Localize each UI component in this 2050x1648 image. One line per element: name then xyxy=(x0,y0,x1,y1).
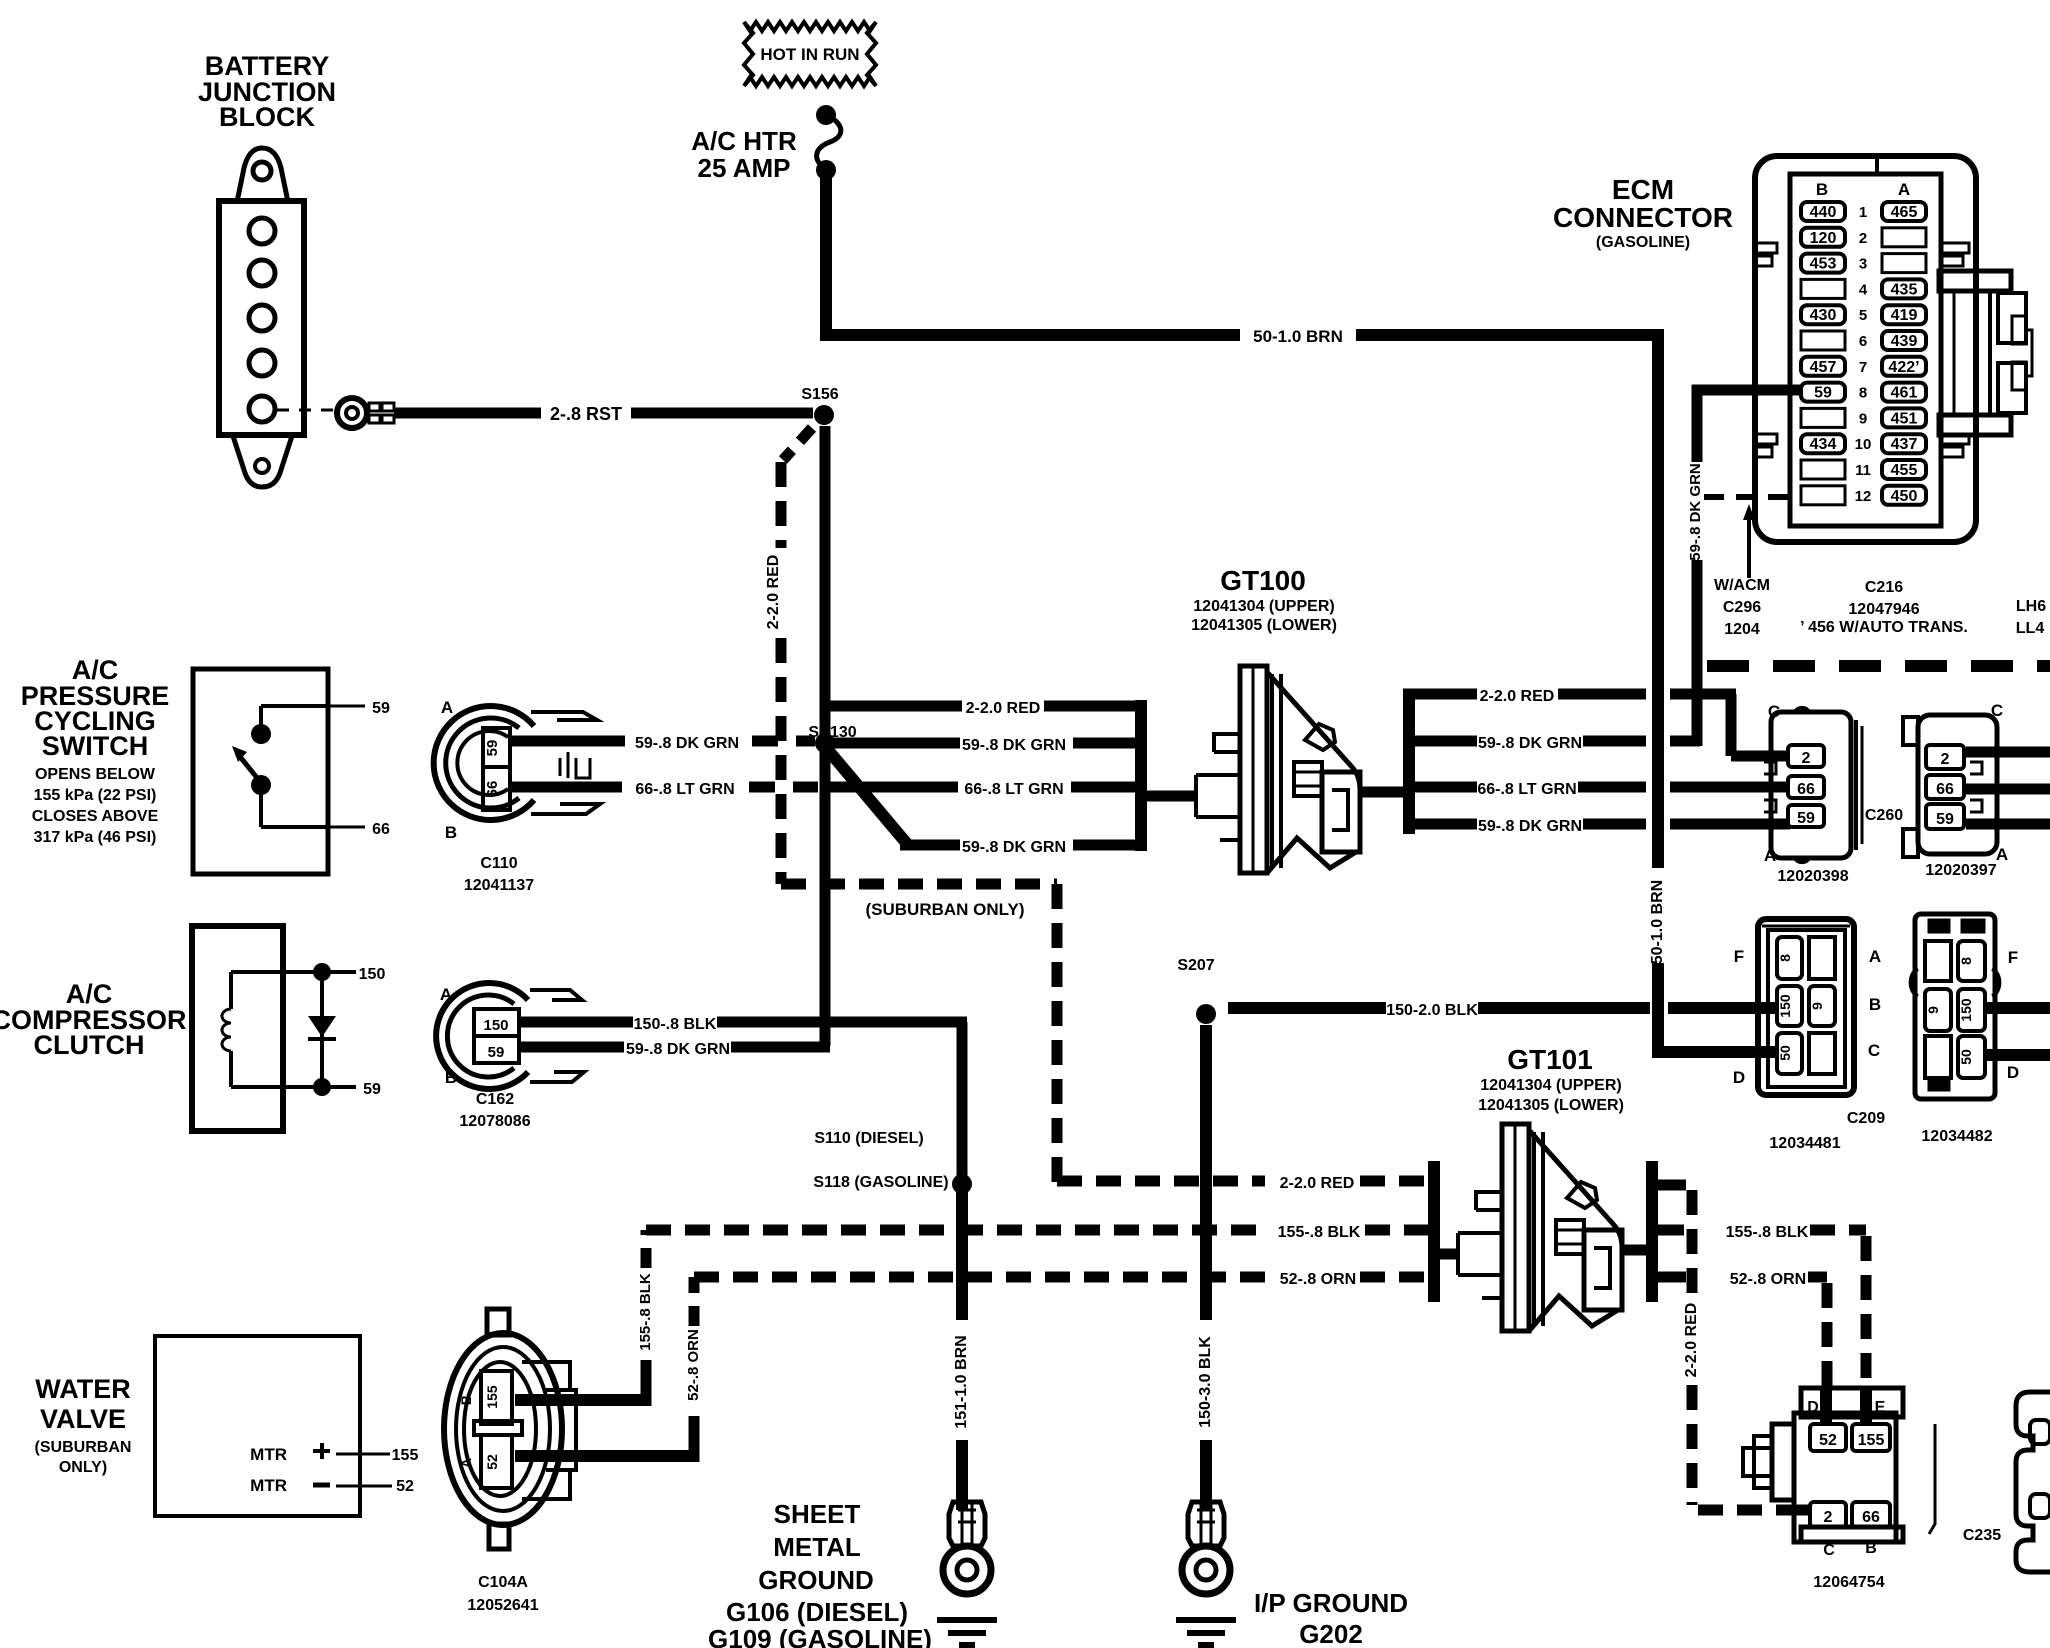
svg-text:D: D xyxy=(1733,1068,1745,1087)
svg-text:A: A xyxy=(1764,846,1776,865)
svg-text:GT100: GT100 xyxy=(1220,565,1306,596)
connector C235 xyxy=(1743,1388,1903,1559)
svg-text:2-.8 RST: 2-.8 RST xyxy=(550,404,622,424)
svg-text:59: 59 xyxy=(1797,810,1815,827)
wire 155-.8 BLK C104A riser xyxy=(515,1230,654,1406)
ground G106/G109 ring terminal and ground symbol xyxy=(937,1502,997,1645)
svg-text:(GASOLINE): (GASOLINE) xyxy=(1596,234,1690,251)
svg-text:59: 59 xyxy=(363,1081,381,1098)
svg-text:434: 434 xyxy=(1810,436,1837,453)
ring terminal (battery feed) xyxy=(337,398,394,428)
svg-text:66: 66 xyxy=(372,821,390,838)
svg-text:453: 453 xyxy=(1810,256,1837,273)
svg-text:25 AMP: 25 AMP xyxy=(698,153,791,183)
svg-text:I/P GROUND: I/P GROUND xyxy=(1254,1588,1408,1618)
svg-text:C110: C110 xyxy=(480,855,517,872)
svg-text:ECM: ECM xyxy=(1612,174,1674,205)
connector C260 mate 12020397 xyxy=(1903,701,2008,864)
svg-text:120: 120 xyxy=(1810,230,1837,247)
svg-text:G202: G202 xyxy=(1299,1619,1363,1648)
svg-text:12052641: 12052641 xyxy=(467,1597,538,1614)
wire 59-.8 DK GRN S130 to GT100 (lower, diagonal) xyxy=(828,750,1146,856)
svg-text:12: 12 xyxy=(1855,488,1872,505)
note W/ACM C296 1204 xyxy=(1714,577,1770,638)
svg-text:OPENS BELOW: OPENS BELOW xyxy=(35,766,156,783)
label C235 12064754 xyxy=(1813,1527,2001,1591)
svg-text:C260: C260 xyxy=(1865,807,1903,824)
svg-text:155: 155 xyxy=(392,1447,419,1464)
svg-text:WATER: WATER xyxy=(35,1374,131,1404)
svg-text:12020398: 12020398 xyxy=(1777,868,1848,885)
wire 2-2.0 RED (S156 branch to GT100) xyxy=(820,700,1146,1046)
svg-text:150-3.0 BLK: 150-3.0 BLK xyxy=(1197,1336,1214,1428)
svg-text:52: 52 xyxy=(484,1454,500,1470)
wire 59 vertical S156 to C162 junction xyxy=(820,426,831,1046)
svg-text:’ 456 W/AUTO TRANS.: ’ 456 W/AUTO TRANS. xyxy=(1800,619,1968,636)
svg-text:2: 2 xyxy=(1824,1509,1833,1526)
GT101 label xyxy=(1478,1044,1624,1114)
svg-text:C209: C209 xyxy=(1847,1110,1885,1127)
grommet GT101 xyxy=(1458,1124,1622,1331)
wire GT100 to right bus xyxy=(1358,787,1410,798)
svg-text:150: 150 xyxy=(1958,998,1974,1022)
svg-text:455: 455 xyxy=(1891,462,1918,479)
splice S110/S118 labels xyxy=(813,1130,948,1191)
svg-text:59-.8 DK GRN: 59-.8 DK GRN xyxy=(1687,463,1704,561)
label C260 12020398 xyxy=(1777,807,1903,885)
dashed wire 52-.8 ORN GT101 to C235 pin 52 xyxy=(1646,1271,1827,1424)
svg-text:4: 4 xyxy=(1859,281,1868,298)
svg-text:10: 10 xyxy=(1855,436,1872,453)
svg-text:12041305 (LOWER): 12041305 (LOWER) xyxy=(1191,617,1337,634)
wire 59-.8 DK GRN to ECM pin B8 xyxy=(1687,385,1801,746)
svg-text:2-2.0 RED: 2-2.0 RED xyxy=(966,700,1041,717)
A/C pressure cycling switch xyxy=(193,669,328,874)
connector C209 mate 12034482 xyxy=(1911,914,2019,1099)
svg-text:S118 (GASOLINE): S118 (GASOLINE) xyxy=(813,1174,948,1191)
svg-text:435: 435 xyxy=(1891,281,1918,298)
diode (clutch suppression) xyxy=(308,972,336,1087)
svg-text:419: 419 xyxy=(1891,307,1918,324)
node 66 stub (pressure switch) xyxy=(328,821,390,838)
svg-text:C216: C216 xyxy=(1865,579,1903,596)
svg-text:F: F xyxy=(1734,947,1744,966)
wire 59-.8 DK GRN S130 to GT100 (upper) xyxy=(833,737,1146,754)
svg-text:150-2.0 BLK: 150-2.0 BLK xyxy=(1386,1002,1478,1019)
wire 66-.8 LT GRN GT100 to C260 pin 66 xyxy=(1403,781,1790,798)
svg-text:66: 66 xyxy=(1936,781,1954,798)
wire 150-.8 BLK C162 to S110/S118 riser xyxy=(521,1016,967,1186)
wire 151-1.0 BRN to sheet metal ground xyxy=(953,1184,970,1510)
svg-text:155: 155 xyxy=(1858,1432,1885,1449)
A/C compressor clutch label xyxy=(0,979,187,1060)
svg-text:B: B xyxy=(1869,995,1881,1014)
node 59 stub (clutch) xyxy=(313,1078,381,1098)
GT101 right bus xyxy=(1646,1161,1658,1302)
svg-text:(SUBURBAN ONLY): (SUBURBAN ONLY) xyxy=(866,900,1025,919)
svg-text:66-.8 LT GRN: 66-.8 LT GRN xyxy=(1477,781,1576,798)
svg-text:52-.8 ORN: 52-.8 ORN xyxy=(685,1329,702,1401)
svg-text:GROUND: GROUND xyxy=(758,1565,874,1595)
svg-text:150: 150 xyxy=(359,966,386,983)
svg-text:W/ACM: W/ACM xyxy=(1714,577,1770,594)
svg-text:F: F xyxy=(2008,948,2018,967)
wire bus to GT101 grommet xyxy=(1434,1249,1458,1260)
splice S118 dot xyxy=(952,1174,972,1194)
wire 52-.8 ORN C104A riser xyxy=(515,1277,702,1462)
wire 59-.8 DK GRN GT100 to ECM branch xyxy=(1403,735,1700,752)
label C162 12078086 xyxy=(459,1091,530,1130)
svg-text:317 kPa (46 PSI): 317 kPa (46 PSI) xyxy=(34,829,157,846)
svg-text:457: 457 xyxy=(1810,359,1837,376)
svg-text:A: A xyxy=(441,698,453,717)
svg-text:BLOCK: BLOCK xyxy=(219,102,315,132)
svg-text:59-.8 DK GRN: 59-.8 DK GRN xyxy=(626,1041,730,1058)
A/C compressor clutch xyxy=(192,926,318,1131)
svg-text:12041137: 12041137 xyxy=(464,877,534,894)
wires C260 mate to edge xyxy=(1966,752,2050,824)
ECM pin grid xyxy=(1801,202,1926,505)
dashed wire 2-2.0 RED GT101 to C235 pin 2 xyxy=(1646,1185,1812,1510)
svg-text:150: 150 xyxy=(483,1017,508,1034)
svg-text:155 kPa (22 PSI): 155 kPa (22 PSI) xyxy=(34,787,157,804)
svg-text:G106 (DIESEL): G106 (DIESEL) xyxy=(726,1597,908,1627)
dashed link battery block to ring terminal xyxy=(277,409,334,412)
I/P ground label xyxy=(1254,1588,1408,1648)
svg-text:451: 451 xyxy=(1891,410,1918,427)
svg-text:A: A xyxy=(458,1458,474,1468)
svg-text:66: 66 xyxy=(1862,1509,1880,1526)
svg-text:2-2.0 RED: 2-2.0 RED xyxy=(1280,1175,1355,1192)
svg-text:G109 (GASOLINE): G109 (GASOLINE) xyxy=(708,1624,932,1648)
svg-text:12041304 (UPPER): 12041304 (UPPER) xyxy=(1480,1077,1621,1094)
wire 59-.8 DK GRN C110 to S130 xyxy=(512,735,815,752)
svg-text:2: 2 xyxy=(1859,230,1867,247)
svg-text:59-.8 DK GRN: 59-.8 DK GRN xyxy=(962,737,1066,754)
svg-text:66-.8 LT GRN: 66-.8 LT GRN xyxy=(964,781,1063,798)
svg-text:CLUTCH: CLUTCH xyxy=(34,1030,145,1060)
svg-text:MTR: MTR xyxy=(250,1445,287,1464)
svg-text:155-.8 BLK: 155-.8 BLK xyxy=(1278,1224,1361,1241)
svg-text:8: 8 xyxy=(1777,954,1793,962)
GT100 left bus xyxy=(1135,700,1147,851)
svg-text:S110 (DIESEL): S110 (DIESEL) xyxy=(814,1130,923,1147)
svg-text:12047946: 12047946 xyxy=(1848,601,1919,618)
svg-text:12034482: 12034482 xyxy=(1921,1128,1992,1145)
svg-text:HOT IN RUN: HOT IN RUN xyxy=(760,45,859,64)
dashed wire 52-.8 ORN to GT101 xyxy=(694,1271,1430,1288)
svg-text:C296: C296 xyxy=(1723,599,1761,616)
svg-text:VALVE: VALVE xyxy=(40,1404,126,1434)
svg-text:8: 8 xyxy=(1859,385,1867,402)
svg-text:155: 155 xyxy=(484,1385,500,1409)
svg-text:SWITCH: SWITCH xyxy=(42,731,148,761)
GT100 label xyxy=(1191,565,1337,634)
node 59 stub (pressure switch) xyxy=(328,700,390,717)
svg-text:150: 150 xyxy=(1777,994,1793,1018)
svg-text:B: B xyxy=(1865,1540,1877,1557)
svg-text:8: 8 xyxy=(1958,957,1974,965)
svg-text:A: A xyxy=(1898,180,1910,199)
svg-text:50: 50 xyxy=(1958,1049,1974,1065)
svg-text:2-2.0 RED: 2-2.0 RED xyxy=(1683,1303,1700,1378)
svg-text:9: 9 xyxy=(1859,410,1867,427)
svg-text:155-.8 BLK: 155-.8 BLK xyxy=(637,1273,654,1351)
wire 66-.8 LT GRN C110 to GT100 xyxy=(512,781,1146,798)
GT101 left bus xyxy=(1428,1161,1440,1302)
dashed wire 2-2.0 RED to GT101 xyxy=(1057,1175,1430,1192)
ECM connector label xyxy=(1553,174,1733,251)
svg-text:C104A: C104A xyxy=(478,1574,528,1591)
GT100 right bus xyxy=(1403,689,1415,834)
svg-text:CLOSES ABOVE: CLOSES ABOVE xyxy=(32,808,159,825)
svg-text:11: 11 xyxy=(1855,462,1871,479)
wire GT101 to right bus xyxy=(1620,1245,1652,1256)
svg-text:1204: 1204 xyxy=(1724,621,1760,638)
svg-text:12034481: 12034481 xyxy=(1769,1135,1840,1152)
svg-text:66: 66 xyxy=(1797,781,1815,798)
svg-text:A: A xyxy=(1869,947,1881,966)
connector C162 xyxy=(436,983,584,1089)
HOT IN RUN balloon xyxy=(744,22,876,86)
svg-text:12020397: 12020397 xyxy=(1925,862,1996,879)
arrow to W/ACM note xyxy=(1743,504,1755,578)
connector C104A xyxy=(444,1309,576,1549)
svg-text:12041305 (LOWER): 12041305 (LOWER) xyxy=(1478,1097,1624,1114)
svg-text:52-.8 ORN: 52-.8 ORN xyxy=(1730,1271,1806,1288)
svg-text:59: 59 xyxy=(1936,811,1954,828)
grommet GT100 xyxy=(1196,666,1360,873)
wire 2-.8 RST xyxy=(394,404,813,424)
svg-text:2: 2 xyxy=(1802,750,1811,767)
svg-text:S156: S156 xyxy=(801,386,838,403)
svg-text:9: 9 xyxy=(1925,1006,1941,1014)
svg-text:S207: S207 xyxy=(1177,957,1214,974)
svg-text:5: 5 xyxy=(1859,307,1867,324)
svg-text:422’: 422’ xyxy=(1888,359,1919,376)
ground G202 ring terminal and ground symbol xyxy=(1176,1502,1236,1645)
svg-text:3: 3 xyxy=(1859,256,1867,273)
svg-text:12078086: 12078086 xyxy=(459,1113,530,1130)
svg-text:461: 461 xyxy=(1891,385,1918,402)
svg-text:66: 66 xyxy=(484,781,501,798)
connector C110 xyxy=(434,698,600,842)
wire 150-2.0 BLK S207 to C209 pin 150 xyxy=(1228,1002,1777,1019)
dashed line ECM pin B12 (C296 ref) xyxy=(1704,494,1800,500)
note LH6 LL4 xyxy=(2016,598,2046,637)
svg-text:52: 52 xyxy=(1819,1432,1837,1449)
svg-text:2-2.0 RED: 2-2.0 RED xyxy=(1480,688,1555,705)
svg-text:12041304 (UPPER): 12041304 (UPPER) xyxy=(1193,598,1334,615)
svg-text:ONLY): ONLY) xyxy=(59,1459,107,1476)
wire 150-3.0 BLK S207 to I/P ground xyxy=(1197,1025,1214,1510)
svg-text:50: 50 xyxy=(1777,1045,1793,1061)
svg-text:66-.8 LT GRN: 66-.8 LT GRN xyxy=(635,781,734,798)
note C216 12047946 xyxy=(1800,579,1968,636)
svg-text:7: 7 xyxy=(1859,359,1867,376)
svg-text:C235: C235 xyxy=(1963,1527,2001,1544)
wire 50-1.0 BRN (fuse to ECM area, down to C209) xyxy=(820,176,1776,1052)
wire 2-2.0 RED GT100 to C260 pin 2 xyxy=(1403,688,1790,756)
wire 59-.8 DK GRN GT100 to C260 pin 59 xyxy=(1403,818,1790,835)
svg-text:439: 439 xyxy=(1891,333,1918,350)
label C209 12034481 xyxy=(1769,1110,1885,1152)
stray mark near C235 xyxy=(1929,1424,1935,1534)
svg-text:465: 465 xyxy=(1891,204,1918,221)
wire 59-.8 DK GRN C162 to junction xyxy=(521,1041,830,1058)
A/C pressure cycling switch label xyxy=(21,655,170,846)
battery junction block label xyxy=(198,51,336,132)
svg-text:59-.8 DK GRN: 59-.8 DK GRN xyxy=(1478,735,1582,752)
svg-text:59: 59 xyxy=(488,1044,505,1061)
svg-text:50-1.0 BRN: 50-1.0 BRN xyxy=(1649,880,1666,964)
sheet metal ground label xyxy=(708,1499,932,1648)
svg-text:9: 9 xyxy=(1809,1002,1825,1010)
svg-text:LH6: LH6 xyxy=(2016,598,2046,615)
svg-text:(SUBURBAN: (SUBURBAN xyxy=(35,1439,132,1456)
svg-text:59-.8 DK GRN: 59-.8 DK GRN xyxy=(962,839,1066,856)
svg-text:B: B xyxy=(458,1395,474,1405)
svg-text:C162: C162 xyxy=(476,1091,514,1108)
splice S207 xyxy=(1177,957,1216,1024)
svg-text:C: C xyxy=(1868,1041,1880,1060)
svg-text:D: D xyxy=(2007,1063,2019,1082)
svg-text:437: 437 xyxy=(1891,436,1918,453)
connector C260 (harness half) xyxy=(1764,702,1862,865)
svg-text:LL4: LL4 xyxy=(2016,620,2045,637)
dashed wire 155-.8 BLK to GT101 xyxy=(646,1224,1430,1241)
svg-text:SHEET: SHEET xyxy=(774,1499,861,1529)
svg-text:GT101: GT101 xyxy=(1507,1044,1593,1075)
splice S156 xyxy=(801,386,838,425)
svg-text:50-1.0 BRN: 50-1.0 BRN xyxy=(1253,327,1343,346)
svg-text:C: C xyxy=(1823,1542,1835,1559)
svg-text:A: A xyxy=(1996,845,2008,864)
dashed wire 2-2.0 RED (suburban) from S156 xyxy=(765,428,1057,1186)
svg-text:1: 1 xyxy=(1859,204,1867,221)
fuse A/C HTR 25 AMP xyxy=(691,105,841,183)
svg-text:52-.8 ORN: 52-.8 ORN xyxy=(1280,1271,1356,1288)
svg-text:CONNECTOR: CONNECTOR xyxy=(1553,202,1733,233)
svg-text:59-.8 DK GRN: 59-.8 DK GRN xyxy=(1478,818,1582,835)
label C110 12041137 xyxy=(464,855,534,894)
water valve xyxy=(155,1336,418,1516)
splice S130 xyxy=(808,724,856,753)
svg-text:430: 430 xyxy=(1810,307,1837,324)
svg-text:450: 450 xyxy=(1891,488,1918,505)
node 150 stub (clutch) xyxy=(313,963,385,983)
label C104A 12052641 xyxy=(467,1574,538,1614)
connector at right edge (C235 mate, partial) xyxy=(2016,1392,2050,1572)
svg-text:59: 59 xyxy=(484,740,501,757)
svg-text:MTR: MTR xyxy=(250,1476,287,1495)
svg-text:155-.8 BLK: 155-.8 BLK xyxy=(1726,1224,1809,1241)
svg-text:52: 52 xyxy=(396,1478,414,1495)
svg-text:6: 6 xyxy=(1859,333,1867,350)
svg-text:151-1.0 BRN: 151-1.0 BRN xyxy=(953,1335,970,1428)
connector C209 (harness half) xyxy=(1733,919,1881,1095)
water valve label xyxy=(35,1374,132,1476)
svg-text:59-.8 DK GRN: 59-.8 DK GRN xyxy=(635,735,739,752)
wire bus to GT100 grommet xyxy=(1141,791,1196,802)
dashed wire 155-.8 BLK GT101 to C235 pin 155 xyxy=(1646,1224,1866,1424)
dashed line C216 xyxy=(1707,660,2050,672)
svg-text:B: B xyxy=(1816,180,1828,199)
svg-text:METAL: METAL xyxy=(773,1532,861,1562)
wires C209 mate to edge xyxy=(1986,1008,2050,1055)
svg-text:59: 59 xyxy=(372,700,390,717)
svg-text:12064754: 12064754 xyxy=(1813,1574,1884,1591)
svg-text:A/C HTR: A/C HTR xyxy=(691,126,797,156)
svg-text:59: 59 xyxy=(1814,385,1832,402)
svg-text:440: 440 xyxy=(1810,204,1837,221)
svg-text:150-.8 BLK: 150-.8 BLK xyxy=(634,1016,717,1033)
svg-text:2: 2 xyxy=(1941,751,1950,768)
battery junction block xyxy=(219,148,304,487)
ECM connector xyxy=(1755,156,2032,542)
svg-text:2-2.0 RED: 2-2.0 RED xyxy=(765,555,782,630)
svg-text:B: B xyxy=(445,823,457,842)
